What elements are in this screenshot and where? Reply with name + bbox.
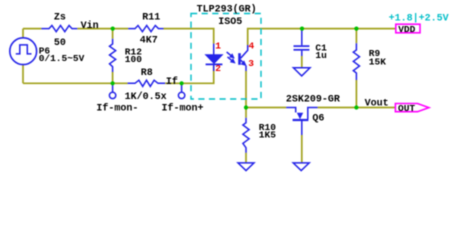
wire R12 top lead [112, 29, 114, 39]
wire source top stub [22, 29, 24, 38]
svg-text:ISO5: ISO5 [218, 17, 242, 28]
pulse source P6 [10, 38, 37, 65]
emitter arrowhead [241, 60, 249, 68]
junction If-mon- [111, 81, 115, 85]
junction R9 top [354, 27, 358, 31]
ground under Q6 [293, 163, 309, 171]
power port VDD [396, 24, 420, 33]
gate arrowhead [297, 113, 303, 120]
output port OUT [395, 104, 429, 112]
wire C1 bottom lead to ground [301, 56, 303, 68]
wire collector pin 4 to top-right rail [248, 29, 396, 45]
svg-text:2SK209-GR: 2SK209-GR [286, 94, 340, 105]
svg-text:Vin: Vin [81, 20, 99, 32]
svg-text:3: 3 [248, 58, 254, 69]
optocoupler U ISO5 dashed boundary [191, 14, 261, 100]
svg-text:15K: 15K [369, 56, 386, 67]
light arrow 1 [225, 50, 236, 61]
junction Vout node [354, 105, 358, 109]
svg-text:2: 2 [215, 63, 221, 74]
capacitor C1 [294, 29, 310, 56]
wire top-left rail from source to Zs [23, 28, 41, 30]
wire R9 top lead [355, 29, 357, 44]
wire Q6 source to ground [301, 135, 303, 163]
junction emitter/R10/gate node [244, 105, 248, 109]
wire Q6 drain to Vout and OUT port [318, 107, 396, 109]
wire source bottom stub [22, 65, 24, 84]
svg-text:0/1.5~5V: 0/1.5~5V [39, 53, 85, 64]
svg-text:Zs: Zs [54, 12, 66, 23]
svg-text:If-mon+: If-mon+ [162, 102, 204, 114]
resistor R10 [243, 118, 249, 153]
wire R10 top lead [245, 108, 247, 118]
light arrow 2 [226, 55, 237, 66]
wire R11 to LED pin 1 [164, 29, 214, 44]
ground under R10 [238, 163, 254, 171]
resistor R8 [128, 80, 166, 86]
terminal If-mon- [109, 83, 115, 98]
svg-text:Q6: Q6 [312, 113, 324, 124]
svg-text:If: If [166, 76, 178, 88]
phototransistor of TLP293 [240, 45, 248, 71]
wire R9 bottom lead to Vout rail [355, 80, 357, 108]
resistor R12 [110, 39, 116, 72]
wire emitter pin 3 down to node [245, 71, 247, 108]
svg-text:1K5: 1K5 [259, 130, 276, 141]
svg-text:100: 100 [125, 54, 142, 65]
LED of TLP293 [206, 44, 223, 71]
junction C1 top [300, 27, 304, 31]
svg-text:If-mon-: If-mon- [96, 102, 138, 114]
wire R8 to LED pin 2 [165, 66, 214, 83]
svg-text:1K/0.5x: 1K/0.5x [125, 91, 167, 103]
svg-text:TLP293(GR): TLP293(GR) [197, 4, 257, 16]
svg-text:R11: R11 [142, 12, 160, 23]
ground under C1 [293, 68, 310, 76]
svg-text:R8: R8 [141, 68, 153, 79]
terminal If-mon+ [178, 83, 184, 98]
resistor R11 [128, 26, 163, 32]
wire R10 bottom lead to ground [245, 153, 247, 163]
svg-text:+1.8|+2.5V: +1.8|+2.5V [389, 13, 449, 25]
svg-text:4K7: 4K7 [140, 35, 158, 46]
svg-text:4: 4 [249, 40, 255, 51]
wire R12 bottom lead [112, 72, 114, 83]
wire Zs to node Vin/junction [77, 28, 128, 30]
junction If-mon+ [180, 81, 184, 85]
resistor Zs [41, 26, 77, 32]
svg-text:OUT: OUT [398, 103, 415, 114]
svg-text:Vout: Vout [365, 99, 389, 110]
svg-text:50: 50 [54, 38, 66, 49]
svg-text:VDD: VDD [398, 24, 415, 35]
JFET Q6 2SK209-GR [286, 108, 317, 136]
junction node Vin at R12 top [111, 27, 115, 31]
resistor R9 [353, 43, 359, 80]
svg-text:1: 1 [215, 41, 221, 52]
wire bottom-left rail to R8 [23, 82, 128, 84]
wire node to Q6 gate [246, 107, 286, 109]
svg-text:1u: 1u [315, 50, 327, 61]
